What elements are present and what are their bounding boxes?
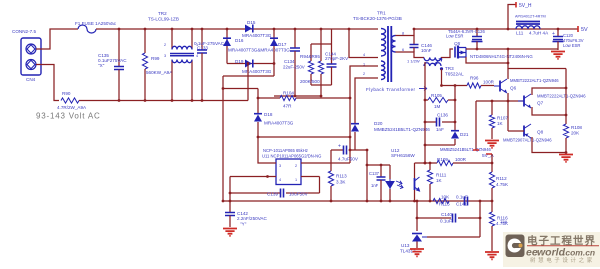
svg-text:C140: C140 — [441, 212, 452, 217]
capacitor C138 — [331, 144, 367, 162]
svg-text:4.7uH 4A: 4.7uH 4A — [529, 31, 549, 36]
wire — [441, 69, 443, 86]
svg-text:200K/500: 200K/500 — [300, 79, 320, 84]
wire pin1 — [301, 176, 320, 178]
svg-text:2.2nF/250VAC: 2.2nF/250VAC — [237, 216, 267, 221]
connector CN4 — [12, 29, 41, 82]
diode D20 — [351, 121, 430, 150]
wire pin4 — [230, 175, 276, 178]
diode D16 — [223, 28, 290, 64]
wire — [532, 88, 566, 95]
svg-text:1nF: 1nF — [436, 127, 444, 132]
svg-text:R104: R104 — [283, 91, 294, 96]
svg-text:2: 2 — [363, 72, 365, 76]
svg-text:TS-LCL99-1ZB: TS-LCL99-1ZB — [148, 17, 179, 22]
ground — [223, 229, 237, 236]
wire — [532, 107, 566, 115]
svg-text:MMBT2907ALT1-QZN946: MMBT2907ALT1-QZN946 — [503, 138, 552, 143]
label T5A — [500, 219, 508, 224]
svg-text:2: 2 — [164, 43, 166, 47]
svg-text:MMBZ5241B5LT1-QZN946: MMBZ5241B5LT1-QZN946 — [440, 147, 492, 152]
resistor R96 — [440, 76, 495, 89]
svg-text:Q7: Q7 — [537, 101, 544, 106]
opto U12 — [386, 148, 420, 202]
svg-text:Low ESR: Low ESR — [446, 34, 463, 39]
wire — [425, 144, 455, 146]
svg-text:MRA4007T3G: MRA4007T3G — [264, 121, 294, 126]
svg-text:270pF-2KV: 270pF-2KV — [325, 56, 349, 61]
wire — [311, 43, 332, 45]
svg-text:R99: R99 — [151, 56, 160, 61]
wire — [320, 28, 323, 44]
choke TR2 — [148, 11, 198, 102]
svg-text:560KW_A9A: 560KW_A9A — [146, 70, 173, 75]
node 5V_A — [482, 153, 495, 159]
svg-text:Q6: Q6 — [510, 86, 517, 91]
wire — [366, 149, 369, 203]
svg-text:+: + — [552, 31, 555, 37]
svg-text:R90: R90 — [62, 91, 71, 96]
resistor R115 — [433, 195, 450, 207]
node 5V out — [578, 26, 588, 33]
wire — [424, 62, 427, 164]
shunt U13 TL431 — [400, 234, 480, 254]
wire — [507, 93, 510, 131]
svg-text:MMBZ5241B5LT1-QZN946: MMBZ5241B5LT1-QZN946 — [374, 127, 430, 132]
wire — [223, 75, 274, 77]
wire — [367, 164, 390, 166]
wire — [222, 76, 225, 202]
resistor R105 — [425, 93, 456, 109]
capacitor C141 — [456, 195, 468, 207]
capacitor C135 — [98, 28, 127, 102]
svg-text:4: 4 — [363, 53, 365, 57]
wire — [331, 29, 333, 44]
wire — [441, 49, 453, 58]
wire — [466, 57, 508, 63]
svg-text:CONN2-7.5: CONN2-7.5 — [12, 29, 36, 34]
wire secondary rail — [414, 28, 578, 30]
resistor R90 — [57, 91, 87, 110]
capacitor C120 — [552, 28, 584, 50]
svg-text:MRA4007T3G: MRA4007T3G — [242, 69, 272, 74]
svg-text:100R: 100R — [483, 80, 495, 85]
svg-text:5V_A: 5V_A — [482, 153, 495, 159]
svg-text:3.3K: 3.3K — [336, 180, 346, 185]
svg-text:C141: C141 — [456, 202, 467, 207]
wire — [36, 29, 78, 49]
transistor Q7 — [518, 94, 586, 109]
capacitor C144 — [325, 44, 349, 85]
resistor R112 — [489, 154, 509, 202]
svg-text:3: 3 — [279, 164, 281, 168]
transistor Q8 — [503, 124, 552, 143]
svg-text:10nF: 10nF — [421, 48, 432, 53]
svg-text:47R: 47R — [283, 104, 292, 109]
capacitor C134 — [274, 28, 321, 98]
svg-text:U11 NCP1011AP065G2/DN-NG: U11 NCP1011AP065G2/DN-NG — [262, 154, 321, 159]
capacitor C140 — [417, 212, 480, 224]
svg-text:R109: R109 — [437, 157, 448, 162]
svg-text:D15: D15 — [247, 20, 256, 25]
svg-text:D16: D16 — [235, 38, 244, 43]
svg-text:4.7R/2W_A9A: 4.7R/2W_A9A — [57, 105, 87, 110]
svg-text:D19: D19 — [235, 59, 244, 64]
resistor R99 — [142, 28, 173, 102]
wire pin3 — [257, 136, 276, 163]
svg-text:T6522AL: T6522AL — [445, 72, 464, 77]
svg-text:.com.cn: .com.cn — [563, 248, 595, 258]
wire — [466, 48, 558, 51]
wire — [258, 136, 351, 139]
svg-text:20K: 20K — [571, 131, 580, 136]
svg-text:U13: U13 — [401, 243, 410, 248]
wire — [36, 65, 59, 101]
wire — [507, 49, 510, 69]
capacitor C126 — [446, 28, 485, 49]
transformer TR3 — [424, 58, 464, 77]
wire — [396, 28, 416, 36]
capacitor C146 — [410, 36, 433, 54]
wire — [320, 85, 323, 97]
svg-text:5V_H: 5V_H — [519, 3, 532, 9]
svg-text:R115: R115 — [439, 202, 450, 207]
svg-text:MMBT2222ALT1-QZN946: MMBT2222ALT1-QZN946 — [537, 94, 586, 99]
transformer TR1 — [353, 11, 404, 83]
svg-text:1K: 1K — [497, 121, 504, 126]
svg-text:R105: R105 — [431, 93, 442, 98]
svg-text:F1 FUSE 1A250Vac: F1 FUSE 1A250Vac — [75, 21, 117, 26]
svg-text:D17: D17 — [278, 42, 287, 47]
svg-text:TS-BCK20-1376-PG/3B: TS-BCK20-1376-PG/3B — [353, 16, 402, 21]
svg-text:TR3: TR3 — [445, 66, 454, 71]
node 5V_A drop — [473, 101, 479, 150]
svg-text:"Y": "Y" — [240, 222, 247, 227]
svg-text:R94&R95: R94&R95 — [300, 54, 320, 59]
wire — [454, 86, 456, 132]
wire — [479, 200, 482, 237]
wire — [355, 78, 378, 124]
resistor R94 — [308, 44, 313, 85]
svg-text:Q8: Q8 — [537, 130, 544, 135]
svg-text:CN4: CN4 — [26, 77, 36, 82]
diode D21 — [440, 131, 492, 152]
label 93-143 Volt AC — [36, 112, 101, 121]
ground — [485, 141, 499, 148]
svg-text:1M: 1M — [434, 104, 441, 109]
svg-text:D20: D20 — [374, 121, 383, 126]
svg-text:10K: 10K — [441, 195, 450, 200]
svg-text:1K: 1K — [436, 178, 443, 183]
svg-text:TR1: TR1 — [377, 11, 386, 16]
svg-text:4.75K: 4.75K — [496, 182, 509, 187]
svg-text:TR2: TR2 — [158, 11, 167, 16]
resistor R108 — [563, 69, 582, 154]
op-amp U11 — [262, 148, 321, 185]
svg-text:+: + — [338, 144, 341, 150]
svg-text:R112: R112 — [496, 176, 507, 181]
wire — [508, 69, 566, 80]
ground — [410, 249, 424, 256]
svg-text:树慧电子设计之家: 树慧电子设计之家 — [530, 256, 595, 264]
fuse F1 — [75, 21, 117, 33]
capacitor C139 — [230, 189, 320, 198]
ground — [551, 52, 565, 59]
svg-text:100R: 100R — [455, 157, 467, 162]
svg-text:C133: C133 — [197, 46, 208, 51]
svg-text:C136: C136 — [437, 113, 448, 118]
svg-text:0.1uF: 0.1uF — [456, 195, 468, 200]
svg-text:NCP-1011AP065 65kHz: NCP-1011AP065 65kHz — [263, 148, 308, 153]
svg-text:D18: D18 — [264, 112, 273, 117]
svg-text:C134: C134 — [284, 59, 295, 64]
wire — [476, 100, 524, 103]
svg-text:R113: R113 — [336, 174, 347, 179]
svg-text:T5A: T5A — [500, 219, 508, 224]
svg-text:R96: R96 — [470, 76, 479, 81]
wire — [229, 177, 232, 213]
svg-text:Q5: Q5 — [454, 41, 461, 46]
svg-text:1nF: 1nF — [371, 183, 379, 188]
wire — [508, 130, 524, 132]
wire — [96, 28, 378, 30]
capacitor C133 — [194, 28, 225, 102]
wire — [247, 62, 250, 100]
svg-text:4: 4 — [279, 178, 281, 182]
svg-text:10uF50V: 10uF50V — [289, 192, 309, 197]
resistor R116 — [489, 201, 509, 251]
ground — [485, 252, 499, 259]
svg-text:world: world — [537, 247, 566, 259]
svg-text:C137: C137 — [369, 171, 380, 176]
svg-text:L11: L11 — [516, 31, 524, 36]
wire — [349, 66, 378, 163]
resistor R111 — [427, 163, 446, 202]
svg-text:SFH6156W: SFH6156W — [391, 153, 415, 158]
wire — [532, 137, 566, 153]
svg-text:2: 2 — [295, 164, 297, 168]
node 5V_H — [507, 2, 532, 30]
svg-text:Low ESR: Low ESR — [563, 43, 580, 48]
diode D18 — [254, 89, 294, 138]
svg-text:1 1/2W: 1 1/2W — [407, 59, 420, 64]
capacitor C142 — [225, 211, 267, 227]
diode D17 — [270, 28, 287, 76]
resistor R107 — [489, 101, 508, 139]
diode D19 — [227, 59, 275, 74]
wire — [223, 88, 258, 90]
transistor Q6 — [494, 78, 559, 93]
svg-text:1: 1 — [295, 178, 297, 182]
svg-text:22uF-250V: 22uF-250V — [283, 65, 305, 70]
svg-text:MRA4007T3G&MRA4007T3G: MRA4007T3G&MRA4007T3G — [228, 48, 290, 53]
resistor R104 — [257, 91, 352, 109]
wire — [348, 28, 378, 58]
svg-text:3: 3 — [164, 54, 166, 58]
svg-text:R111: R111 — [436, 173, 447, 178]
svg-text:NTD4806NHLT4G-NT2406N-NG: NTD4806NHLT4G-NT2406N-NG — [470, 54, 533, 59]
wire — [311, 84, 332, 86]
svg-text:APIS4012T-4R7M: APIS4012T-4R7M — [515, 15, 546, 19]
svg-text:C139: C139 — [267, 192, 278, 197]
transistor Q5 — [454, 41, 533, 59]
ground — [559, 155, 573, 162]
svg-text:MRA4007T3G: MRA4007T3G — [242, 33, 272, 38]
capacitor C136 — [425, 113, 456, 133]
resistor R109 — [415, 157, 493, 166]
inductor L11 — [515, 15, 549, 36]
svg-text:R107: R107 — [497, 116, 508, 121]
resistor R95 — [300, 44, 324, 85]
capacitor C137 — [369, 164, 386, 203]
wire — [416, 200, 419, 231]
svg-text:93-143 Volt AC: 93-143 Volt AC — [36, 112, 101, 121]
svg-text:D21: D21 — [460, 132, 469, 137]
svg-text:MMBT2222ALT1-QZN946: MMBT2222ALT1-QZN946 — [510, 78, 559, 83]
svg-text:0.1uF: 0.1uF — [440, 219, 452, 224]
svg-text:电子工程世界: 电子工程世界 — [527, 234, 596, 247]
svg-text:Flyback Transformer: Flyback Transformer — [366, 87, 416, 92]
wire — [319, 177, 321, 194]
svg-text:4: 4 — [196, 54, 198, 58]
svg-text:4.7uF50V: 4.7uF50V — [338, 157, 359, 162]
svg-text:"X": "X" — [98, 63, 105, 68]
wire — [79, 100, 248, 102]
diode D15 — [242, 20, 272, 38]
resistor R113 — [328, 150, 347, 202]
logo eeworld — [503, 232, 600, 267]
label flyback — [366, 87, 427, 92]
svg-text:5V: 5V — [581, 27, 588, 33]
wire pin2 — [301, 162, 350, 164]
wire primary return — [223, 200, 492, 202]
svg-text:R108: R108 — [571, 125, 582, 130]
wire — [396, 52, 425, 64]
